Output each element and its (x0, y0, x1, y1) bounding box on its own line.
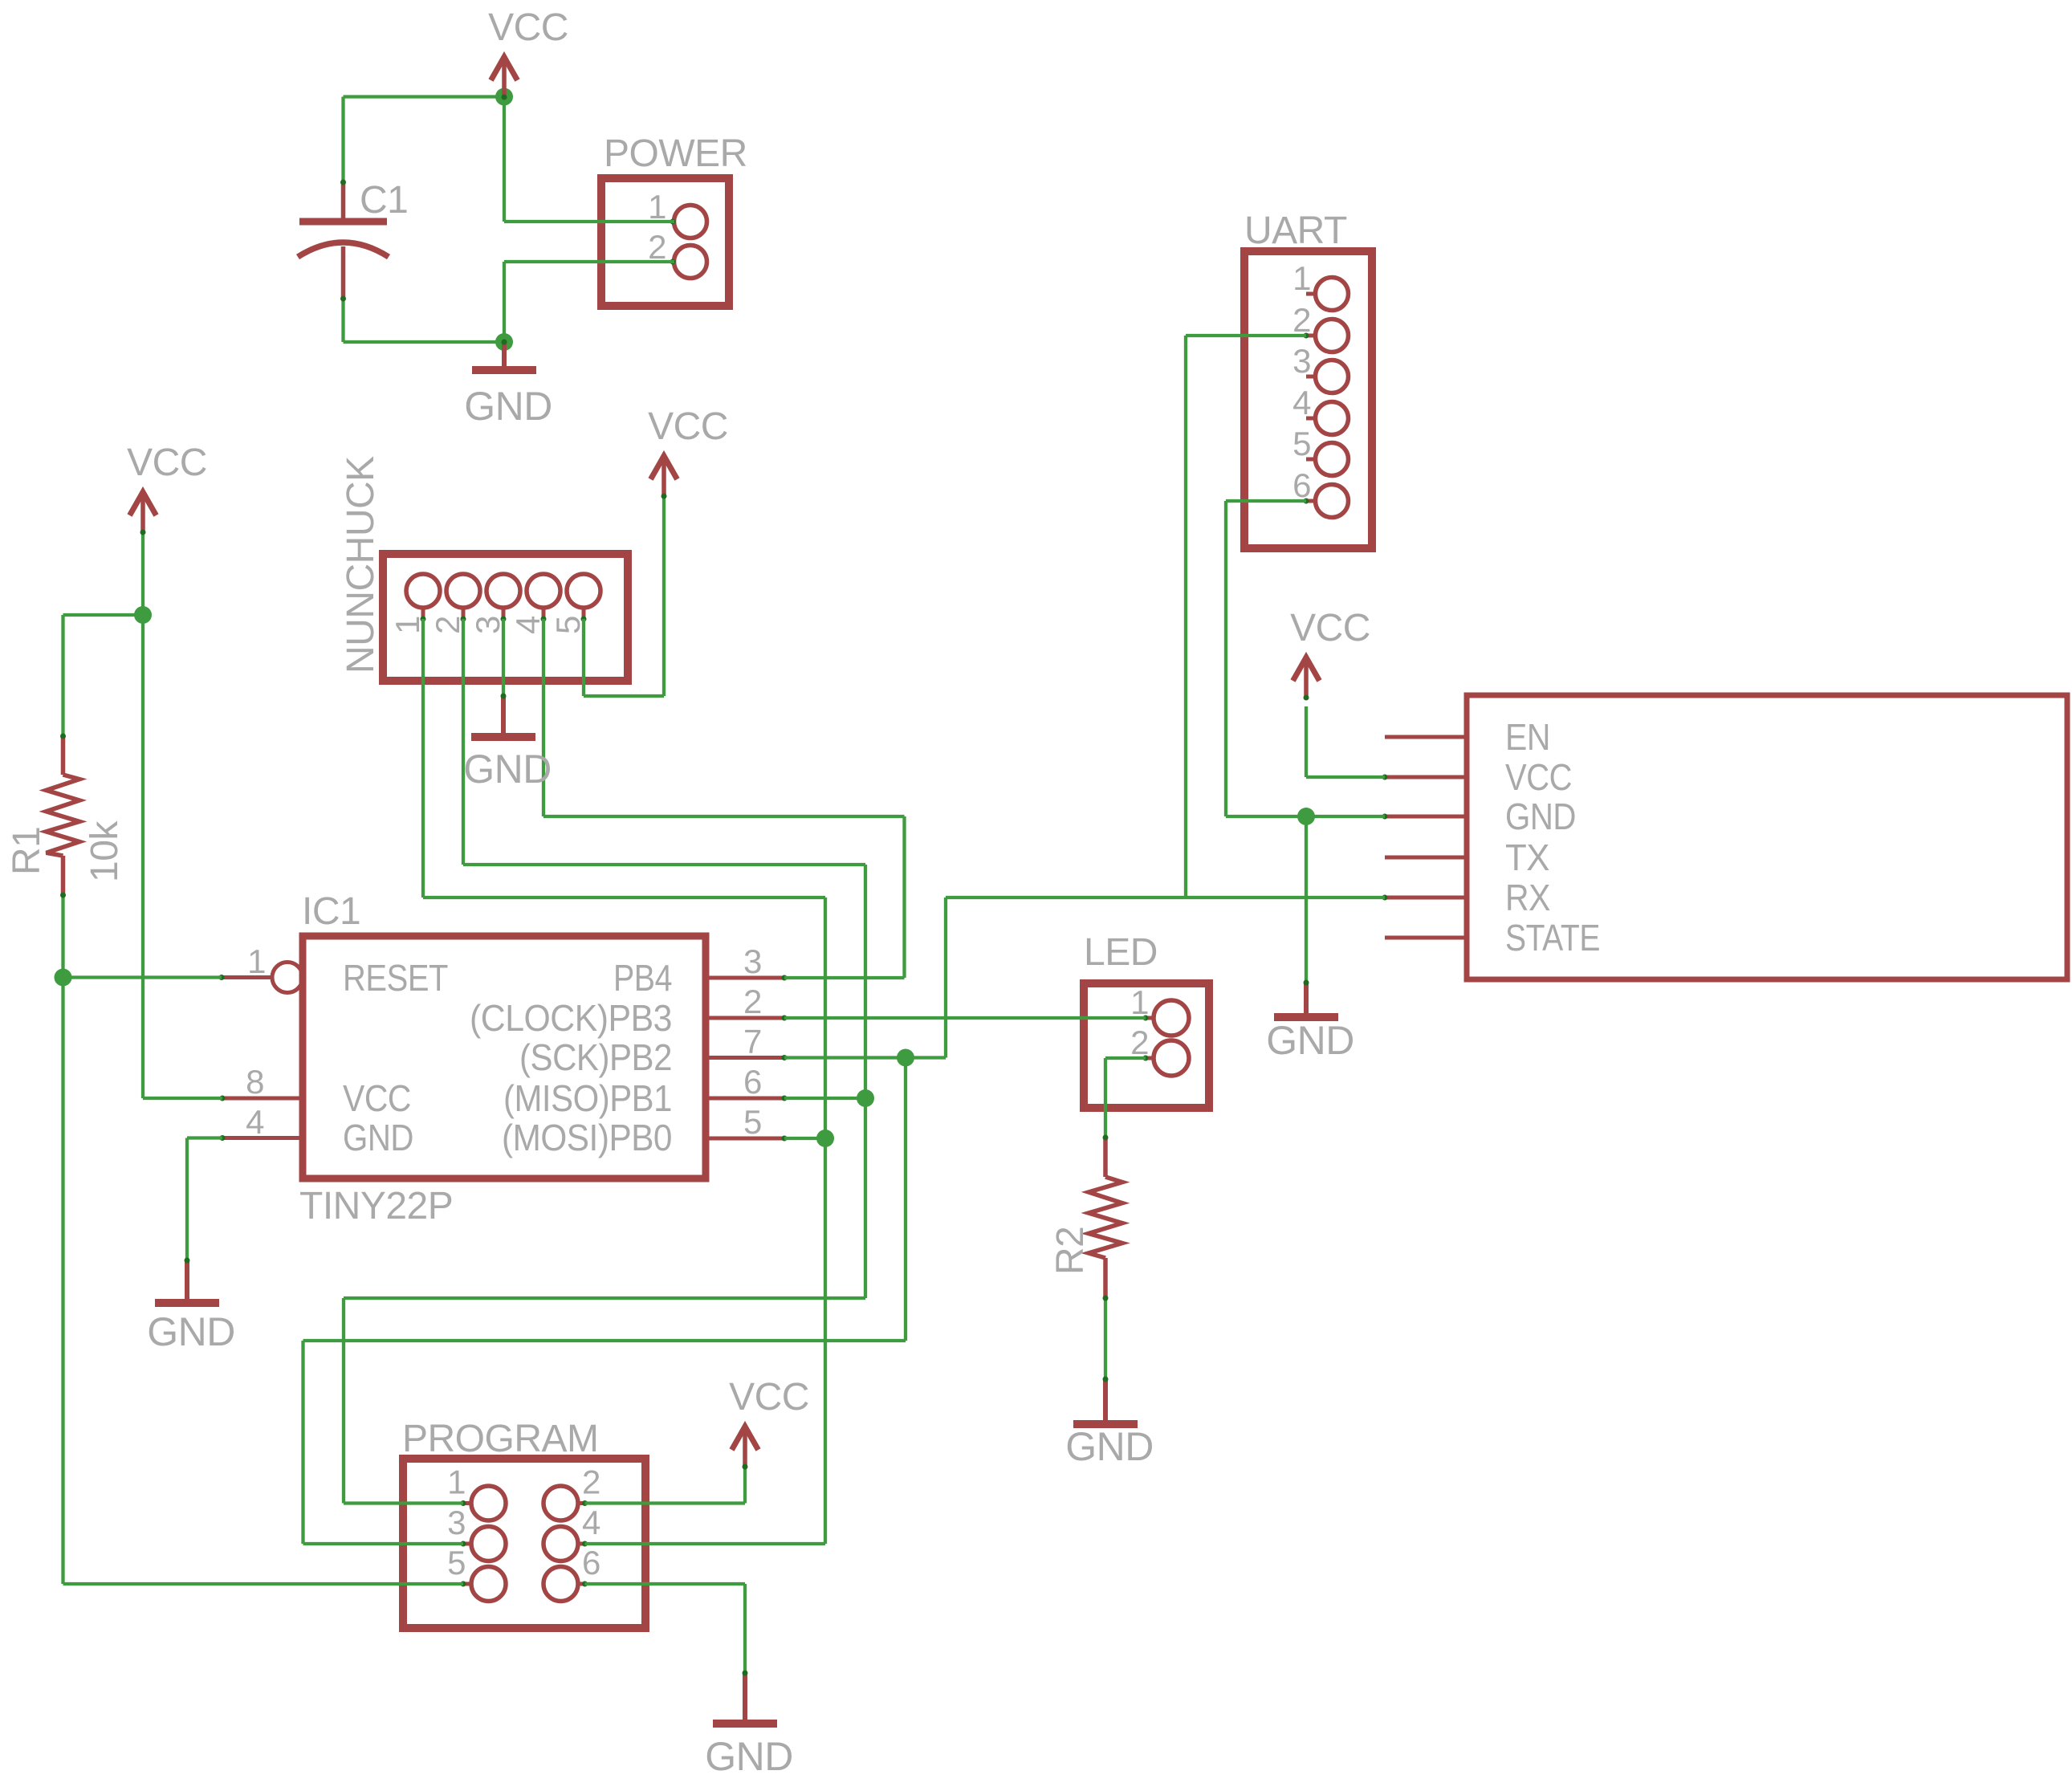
connector LED (1084, 931, 1209, 1108)
resistor R2 (1049, 1135, 1122, 1301)
capacitor C1 (298, 179, 408, 302)
svg-text:RX: RX (1505, 877, 1550, 918)
svg-text:(MISO)PB1: (MISO)PB1 (503, 1077, 672, 1119)
gnd symbol at module (1266, 980, 1354, 1064)
wire GND net: IC1 pin 4 out (187, 1136, 222, 1139)
wire LED pin 2 to R2: left (1105, 1056, 1146, 1060)
wire GND net: POWER pin 2 down (503, 262, 506, 342)
svg-text:R1: R1 (6, 827, 48, 875)
svg-text:5: 5 (743, 1103, 762, 1141)
svg-text:1: 1 (247, 942, 266, 980)
wire GND net: PROGRAM pin 6 right (585, 1582, 746, 1585)
wire VCC net: R1 VCC arrow down (141, 533, 145, 615)
svg-text:1: 1 (1292, 259, 1311, 297)
wire UART pin6 wire: left (1226, 499, 1306, 503)
svg-text:GND: GND (705, 1734, 793, 1779)
svg-text:(SCK)PB2: (SCK)PB2 (519, 1036, 672, 1078)
wire GND net: module junction down (1305, 816, 1308, 983)
module bluetooth (EN VCC GND TX RX STATE) (1382, 695, 2068, 979)
wire R2 bottom to GND (1104, 1298, 1107, 1379)
svg-text:VCC: VCC (1505, 756, 1572, 798)
svg-text:R2: R2 (1049, 1227, 1092, 1275)
vcc symbol at R1 (127, 442, 207, 535)
junction VCC top (C1 / POWER pin1 / VCC arrow) (495, 88, 513, 106)
gnd symbol at nunchuck (463, 694, 552, 792)
svg-text:2: 2 (582, 1463, 600, 1501)
wire PB2 net: down to PROGRAM pin 3 (301, 1341, 304, 1544)
svg-text:EN: EN (1505, 716, 1550, 758)
svg-text:GND: GND (1505, 796, 1576, 837)
wire RESET net: to IC1 pin 1 (63, 975, 222, 979)
svg-text:PROGRAM: PROGRAM (402, 1418, 599, 1460)
svg-text:VCC: VCC (1290, 607, 1370, 649)
wire PB0 net: to PROGRAM pin 4 (585, 1542, 826, 1545)
wire C1 top lead vertical (341, 97, 344, 183)
svg-text:3: 3 (743, 942, 762, 980)
wire nunchuck pin2 / PB1 net: down (462, 619, 465, 865)
gnd symbol at R2 (1065, 1377, 1154, 1470)
svg-text:TX: TX (1505, 836, 1549, 878)
gnd symbol top (464, 340, 552, 429)
wire GND net: POWER pin 2 row (504, 260, 674, 263)
wire VCC net: down to IC1 pin 8 (141, 615, 145, 1098)
wire GND net: C1 bottom to bottom junction (344, 340, 505, 344)
wire PB1 net: IC1 pin 6 stub join (784, 1097, 865, 1100)
svg-text:5: 5 (447, 1544, 466, 1581)
svg-text:VCC: VCC (488, 6, 568, 49)
wire nunchuck pin5 VCC: up to arrow (662, 495, 666, 696)
wire VCC net: PROGRAM arrow down (743, 1462, 747, 1504)
svg-text:2: 2 (743, 983, 762, 1020)
junction RESET at R1 bottom (55, 969, 72, 987)
wire VCC net: PROGRAM pin 2 to arrow (585, 1501, 746, 1504)
wire PB2/RX net: up (944, 898, 947, 1058)
wire PB1 net: horizontal to left (344, 1296, 865, 1300)
gnd symbol at IC1 (147, 1258, 235, 1355)
wire PB1 net: down to PROGRAM pin 1 (342, 1298, 345, 1504)
svg-text:3: 3 (447, 1504, 466, 1541)
wire GND net: PROGRAM pin 6 down (743, 1584, 747, 1673)
wire PB3 net: IC1 pin 2 to LED pin 1 (784, 1016, 1146, 1020)
wire VCC net: into IC1 pin 8 (143, 1097, 222, 1100)
junction PB0 at IC1 pin 5 (816, 1130, 834, 1147)
svg-text:6: 6 (1292, 466, 1311, 504)
svg-text:(CLOCK)PB3: (CLOCK)PB3 (470, 997, 672, 1039)
svg-text:4: 4 (246, 1103, 264, 1141)
wire RESET net: down left rail (61, 978, 64, 1585)
svg-text:NUNCHUCK: NUNCHUCK (340, 456, 382, 674)
wire PB2 net: junction down rail (904, 1058, 907, 1341)
wire C1 bottom lead vertical (341, 299, 344, 342)
wire VCC net: to POWER pin 1 (504, 220, 674, 223)
wire PB2 net: IC1 pin 7 to corner (784, 1056, 946, 1059)
wire PB4 net: down to IC1 pin 3 row (902, 816, 906, 978)
wire LED pin 2 to R2: down (1104, 1058, 1107, 1138)
vcc symbol at module (1290, 607, 1370, 701)
wire PB4 net: horizontal (543, 815, 905, 818)
svg-text:5: 5 (1292, 425, 1311, 462)
resistor R1 10k (6, 734, 126, 898)
svg-text:7: 7 (743, 1023, 762, 1060)
svg-text:C1: C1 (360, 179, 408, 222)
svg-text:8: 8 (246, 1063, 264, 1101)
wire RESET net: to PROGRAM pin 5 (63, 1582, 464, 1585)
wire VCC net: to module VCC pin (1306, 775, 1385, 779)
svg-text:6: 6 (582, 1544, 600, 1581)
wire PB1 net: to PROGRAM pin 1 (344, 1501, 463, 1504)
wire RX net: to module RX pin (946, 896, 1385, 899)
svg-text:(MOSI)PB0: (MOSI)PB0 (502, 1117, 672, 1158)
wire PB0 net: IC1 pin 5 stub join (784, 1137, 825, 1140)
wire VCC net: C1 top to top junction (344, 95, 505, 98)
connector UART (1244, 210, 1372, 548)
wire PB2 net: horizontal to left (303, 1339, 906, 1342)
wire PB4 net: to IC1 pin 3 (784, 976, 905, 979)
svg-text:4: 4 (1292, 384, 1311, 421)
junction GND at module (1297, 808, 1315, 825)
wire VCC net: R1 junction horizontal (63, 613, 144, 617)
svg-text:PB4: PB4 (613, 957, 672, 999)
svg-text:GND: GND (464, 384, 552, 429)
svg-text:6: 6 (743, 1063, 762, 1101)
wire PB0 net: horizontal (423, 896, 825, 899)
connector POWER (601, 132, 747, 306)
svg-text:RESET: RESET (343, 957, 448, 999)
svg-text:GND: GND (463, 747, 552, 792)
svg-text:VCC: VCC (343, 1077, 411, 1119)
svg-text:VCC: VCC (127, 442, 207, 484)
svg-text:VCC: VCC (729, 1376, 809, 1419)
wire PB0 net: vertical rail (824, 898, 827, 1544)
svg-text:2: 2 (1292, 301, 1311, 339)
wire GND net: to module GND pin (1226, 815, 1385, 818)
svg-text:UART: UART (1244, 210, 1347, 252)
wire VCC net: top junction down to POWER pin 1 row (503, 97, 506, 222)
wire nunchuck pin5 VCC: down (582, 619, 585, 696)
ic IC1 TINY22P (219, 890, 788, 1227)
wire UART pin2 wire: left (1186, 334, 1306, 337)
junction GND top (C1 / POWER pin2 / GND symbol) (495, 333, 513, 351)
svg-text:LED: LED (1084, 931, 1158, 974)
wire PB2 net: to PROGRAM pin 3 (303, 1542, 464, 1545)
wire PB1 net: vertical rail (864, 865, 867, 1298)
wire VCC net: module arrow down (1305, 706, 1308, 777)
junction PB2 at IC1 pin 7 (897, 1049, 914, 1067)
wire GND net: IC1 pin 4 down to gnd (185, 1138, 189, 1261)
svg-text:VCC: VCC (648, 405, 728, 448)
svg-text:STATE: STATE (1505, 917, 1600, 959)
connector PROGRAM (402, 1418, 645, 1628)
svg-text:GND: GND (147, 1309, 235, 1354)
gnd symbol at program (705, 1671, 793, 1780)
connector NUNCHUCK (340, 456, 628, 681)
svg-text:GND: GND (343, 1117, 413, 1158)
vcc symbol at nunchuck (648, 405, 728, 499)
svg-text:GND: GND (1266, 1018, 1354, 1063)
junction PB1 at IC1 pin 6 (857, 1089, 874, 1107)
svg-text:1: 1 (447, 1463, 466, 1501)
svg-text:GND: GND (1065, 1424, 1154, 1469)
wire VCC net: R1 junction to R1 top (61, 615, 64, 736)
wire PB1 net: horizontal (463, 863, 865, 866)
wire UART pin6 wire: down (1224, 501, 1227, 816)
wire nunchuck pin4 / PB4 net: down (542, 619, 545, 816)
svg-text:IC1: IC1 (302, 890, 360, 933)
wire nunchuck pin5 VCC: right (584, 694, 664, 698)
vcc symbol top (488, 6, 568, 100)
svg-text:TINY22P: TINY22P (299, 1185, 453, 1227)
wire nunchuck pin3 GND lead (502, 619, 505, 696)
svg-text:3: 3 (1292, 342, 1311, 380)
wire RESET net: R1 bottom down (61, 895, 64, 978)
svg-text:4: 4 (582, 1504, 600, 1541)
wire UART pin2 wire: down to RX net (1184, 336, 1187, 898)
vcc symbol at program (729, 1376, 809, 1470)
svg-text:POWER: POWER (604, 132, 747, 175)
wire nunchuck pin1 / PB0 net: down (421, 619, 425, 898)
junction VCC at R1 (arrow / R1 / IC1 pin8 rail) (134, 606, 152, 624)
svg-text:10k: 10k (83, 820, 126, 882)
